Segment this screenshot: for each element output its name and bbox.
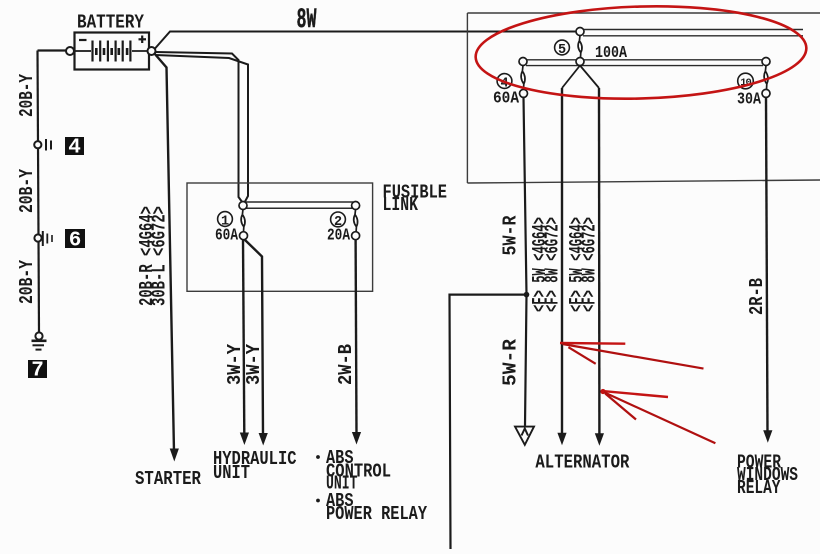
battery box (75, 33, 150, 70)
svg-text:2R-B: 2R-B (746, 278, 768, 315)
battery negative terminal (66, 47, 74, 55)
svg-text:<F> 8W <6G72>: <F> 8W <6G72> (542, 217, 564, 312)
arrowhead starter (170, 449, 179, 462)
wire 5W-R from fuse 4 (524, 97, 527, 426)
label ABS POWER RELAY (316, 499, 320, 503)
wire battery to fusible link (lower of pair) (156, 55, 249, 203)
svg-text:7: 7 (31, 360, 44, 383)
fuse 2 (20A fusible link) (352, 202, 360, 210)
svg-text:4: 4 (68, 137, 81, 160)
second bus pair fuse4 - fuse10 (526, 59, 763, 61)
svg-text:RELAY: RELAY (737, 477, 781, 499)
fuse 4 (60A) (519, 58, 527, 66)
wire split from fuse 5 to alternator feeds (562, 66, 580, 89)
wire 2R-B to power windows relay (766, 97, 768, 433)
svg-text:5W-R: 5W-R (500, 215, 522, 256)
fuse 10 (30A) (762, 58, 770, 66)
svg-text:UNIT: UNIT (213, 462, 250, 484)
red highlight ellipse (474, 2, 807, 103)
wire battery to fusible link (upper of pair) (156, 52, 243, 203)
svg-text:STARTER: STARTER (135, 468, 201, 490)
svg-text:20B-Y: 20B-Y (16, 169, 38, 213)
fusible link enclosure (187, 183, 373, 291)
wire 3W-Y no.1 to hydraulic unit (243, 240, 244, 435)
fuse 5 (100A) (576, 28, 584, 36)
svg-text:6: 6 (69, 230, 82, 253)
connector number 7 (28, 360, 47, 378)
connector number 4 (65, 137, 84, 155)
svg-text:5: 5 (558, 43, 566, 58)
svg-text:3W-Y: 3W-Y (243, 343, 265, 385)
battery minus mark (79, 39, 87, 41)
wire 8W from battery to fuse 5 (155, 32, 578, 49)
svg-text:20B-Y: 20B-Y (16, 74, 38, 117)
connector number 6 (65, 229, 85, 248)
fuse 1 (60A fusible link) (239, 202, 247, 210)
alternator feed wire 2 (598, 88, 601, 436)
fuse number 1 (218, 212, 233, 227)
svg-text:BATTERY: BATTERY (77, 12, 144, 34)
svg-text:5W-R: 5W-R (500, 338, 522, 386)
red pointer set 1 (560, 342, 625, 345)
svg-text:30B-L <6G72>: 30B-L <6G72> (149, 206, 171, 306)
fuse number 10 (738, 73, 754, 89)
battery positive terminal (148, 47, 156, 55)
battery plus mark (139, 38, 147, 40)
battery internal lead left (75, 50, 91, 52)
wire: left vertical 20B-Y run (38, 51, 40, 333)
wire 2W-B to ABS (354, 240, 357, 435)
fuse number 2 (331, 212, 346, 227)
fuse box enclosure (466, 13, 468, 183)
wire branch to page edge (450, 295, 527, 549)
svg-text:2W-B: 2W-B (335, 344, 357, 385)
red pointer set 2 (600, 389, 605, 394)
svg-text:20A: 20A (327, 227, 351, 246)
wire to starter (154, 53, 174, 452)
svg-text:<F> 8W <6G72>: <F> 8W <6G72> (579, 217, 601, 312)
svg-text:8W: 8W (297, 5, 317, 36)
bus wires between fuse 1 and fuse 2 (245, 201, 353, 203)
alternator feed wire 1 (561, 88, 563, 436)
wire: battery negative lead left (38, 49, 67, 51)
ground (body earth) (35, 332, 42, 339)
battery internal lead right (132, 50, 149, 52)
top bus pair from fuse 5 (583, 29, 803, 31)
battery cells (93, 41, 131, 62)
junction node (524, 292, 530, 298)
svg-text:ALTERNATOR: ALTERNATOR (535, 452, 629, 474)
label ABS CONTROL UNIT (316, 455, 320, 459)
svg-text:100A: 100A (595, 44, 628, 63)
wire 3W-Y no.2 to hydraulic unit (245, 240, 264, 436)
fuse number 5 (555, 40, 570, 55)
connector symbol at node 4 (34, 141, 41, 148)
svg-text:60A: 60A (215, 227, 239, 246)
fuse number 4 (497, 74, 512, 89)
svg-text:POWER RELAY: POWER RELAY (326, 503, 427, 525)
svg-text:20B-Y: 20B-Y (16, 260, 38, 304)
svg-text:LINK: LINK (383, 194, 419, 216)
svg-text:60A: 60A (493, 90, 520, 109)
connector symbol at node 6 (34, 234, 41, 241)
off-page connector triangle (515, 427, 534, 445)
svg-text:30A: 30A (737, 91, 762, 110)
